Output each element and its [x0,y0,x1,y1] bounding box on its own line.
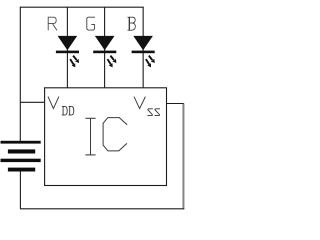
LED D2 (G) [93,36,116,68]
LED D1 (R) [56,36,79,68]
wire top rail [20,6,143,8]
label B [128,17,136,30]
wire LED R vertical [66,7,68,88]
battery BT1 [1,141,41,172]
label R [48,17,57,30]
wire VSS stub [167,103,184,105]
wire LED B vertical [142,7,144,88]
IC text I [85,118,95,155]
pin label VDD [48,97,74,115]
wire left rail [19,7,21,141]
wire right rail [182,104,184,210]
junction bottom-right corner [183,208,185,209]
IC text C [103,118,127,151]
wire LED G vertical [104,7,106,88]
label G [87,17,95,30]
wire VDD stub [20,101,44,103]
wire bottom rail [20,208,183,210]
LED D3 (B) [132,36,155,68]
wire battery to bottom rail [19,171,21,208]
pin label VSS [134,97,160,116]
IC U1 box [45,88,167,186]
